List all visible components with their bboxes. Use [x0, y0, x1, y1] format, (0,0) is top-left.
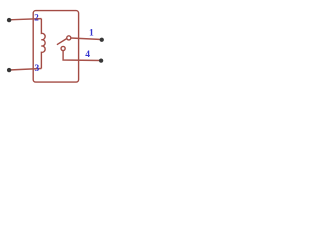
terminal dot pin3	[7, 68, 11, 72]
switch contact top	[67, 36, 71, 40]
wire pin4	[63, 51, 101, 61]
terminal dot pin2	[7, 18, 11, 22]
svg-text:1: 1	[89, 28, 94, 38]
switch blade	[57, 38, 67, 44]
wire pin3	[9, 69, 41, 71]
relay K1 body	[33, 11, 78, 83]
switch contact bottom	[61, 46, 65, 50]
svg-text:4: 4	[85, 50, 90, 60]
svg-text:2: 2	[34, 13, 39, 23]
svg-text:3: 3	[35, 64, 40, 74]
terminal dot pin1	[100, 38, 104, 42]
wire pin1	[71, 38, 102, 40]
wire pin2	[9, 19, 41, 20]
coil L1	[41, 19, 45, 69]
terminal dot pin4	[99, 58, 103, 62]
